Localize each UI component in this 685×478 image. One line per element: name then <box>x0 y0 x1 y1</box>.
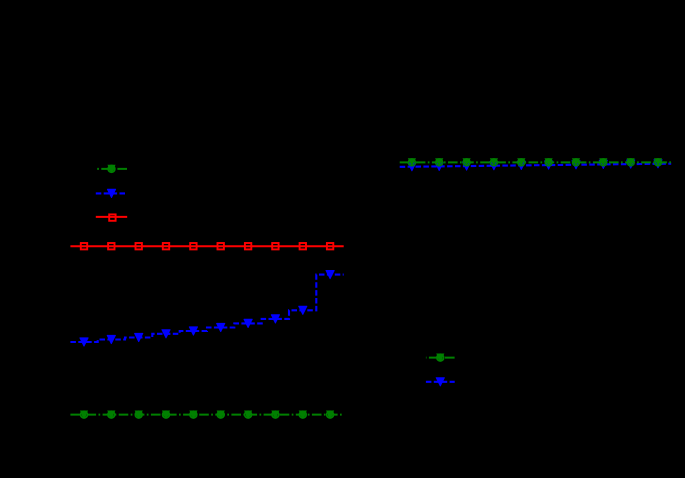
right plot: blue series triangle markers <box>408 160 662 171</box>
right plot: blue series line <box>400 164 672 167</box>
right plot: green series circle+triangle markers <box>408 158 662 166</box>
left legend: green entry <box>96 165 127 173</box>
left plot: red series square markers <box>81 243 333 249</box>
left plot: blue series triangle markers <box>80 271 334 347</box>
right legend: green entry <box>426 354 455 362</box>
left legend: red entry <box>96 214 127 220</box>
left plot: red series line <box>70 245 343 247</box>
right plot: green series line <box>400 161 672 163</box>
right legend: blue entry <box>426 378 455 386</box>
left plot: green series circle+triangle markers <box>80 411 334 419</box>
left legend: blue entry <box>96 189 127 197</box>
left plot: blue step series line <box>70 275 343 342</box>
left plot: green series line <box>70 414 343 416</box>
